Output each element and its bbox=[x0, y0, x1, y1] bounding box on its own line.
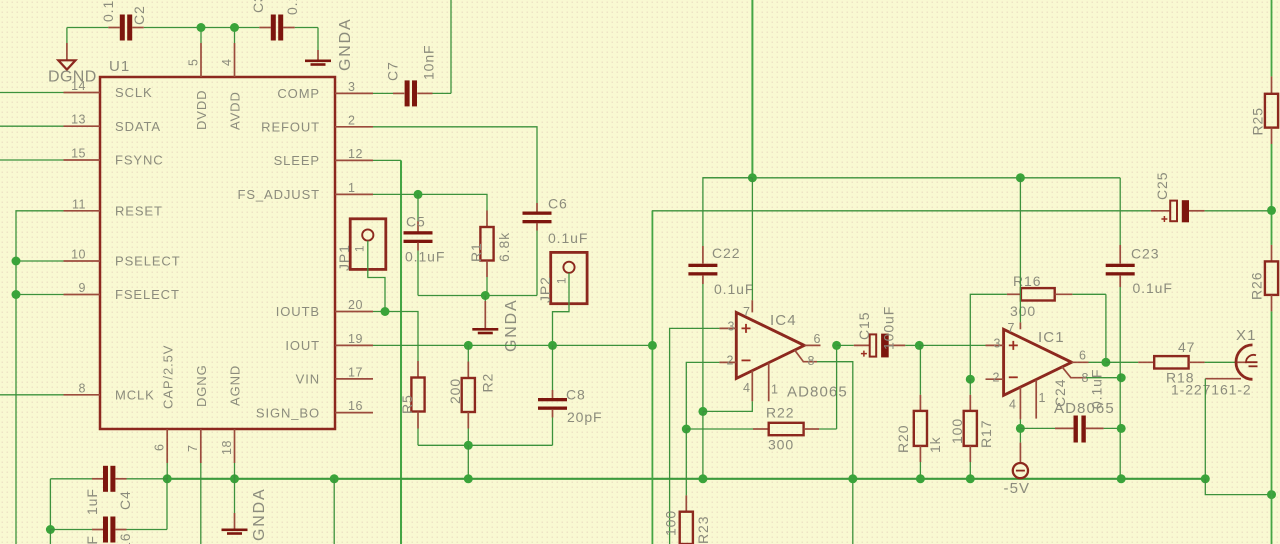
svg-text:1uF: 1uF bbox=[84, 535, 100, 544]
op-amp IC4 AD8065 bbox=[736, 312, 848, 401]
svg-text:GNDA: GNDA bbox=[337, 18, 354, 71]
svg-text:1: 1 bbox=[348, 181, 355, 195]
U1 right pin stubs bbox=[335, 93, 373, 412]
svg-text:300: 300 bbox=[1010, 303, 1036, 319]
svg-text:C24: C24 bbox=[1052, 379, 1068, 407]
resistor R17 100 bbox=[949, 379, 994, 479]
svg-text:8: 8 bbox=[808, 354, 815, 368]
svg-text:1-227161-2: 1-227161-2 bbox=[1171, 382, 1252, 398]
resistor R26 bbox=[1249, 245, 1279, 312]
svg-text:C7: C7 bbox=[385, 61, 401, 81]
svg-text:AGND: AGND bbox=[228, 365, 243, 406]
svg-text:C8: C8 bbox=[566, 387, 586, 403]
svg-text:DGNG: DGNG bbox=[194, 364, 209, 407]
ground GNDA mid symbol bbox=[472, 296, 520, 353]
node feedback R22 R23 junction bbox=[682, 425, 691, 434]
IC4 pin stubs bbox=[719, 300, 820, 401]
node bus C23 bbox=[1117, 474, 1126, 483]
svg-text:C2: C2 bbox=[131, 5, 147, 25]
svg-text:7: 7 bbox=[186, 445, 200, 452]
svg-text:X1: X1 bbox=[1236, 327, 1257, 344]
wire C22 node to ground bus bbox=[702, 411, 704, 478]
node IC4 output junction bbox=[832, 341, 841, 350]
U1 top pin names DVDD AVDD bbox=[194, 90, 243, 130]
connector X1 1-227161-2 bbox=[1171, 327, 1258, 398]
resistor R20 1k bbox=[895, 345, 943, 478]
wire JP2 pin to IOUT bus bbox=[553, 273, 570, 346]
capacitor C23 0.1uF bbox=[1106, 178, 1173, 479]
svg-text:100: 100 bbox=[949, 418, 965, 444]
capacitor C24 0.1uF bbox=[1020, 369, 1121, 443]
svg-text:200: 200 bbox=[447, 378, 463, 404]
U1 left pin stubs bbox=[64, 93, 101, 395]
wire IC4 +input to lower left bbox=[670, 328, 720, 544]
svg-text:DGND: DGND bbox=[48, 69, 97, 86]
node supply rail IC4 bbox=[748, 173, 757, 182]
IC4 pin numbers bbox=[727, 305, 821, 397]
wire lower analog rail bbox=[418, 444, 553, 446]
resistor R2 200 bbox=[447, 345, 496, 445]
svg-text:6: 6 bbox=[1079, 349, 1086, 363]
wire IC4 -input feedback node bbox=[686, 362, 719, 429]
svg-text:11: 11 bbox=[72, 197, 86, 211]
resistor R1 6.8k bbox=[468, 211, 512, 296]
node right rail bottom junction bbox=[1267, 490, 1276, 499]
svg-text:7: 7 bbox=[1008, 321, 1015, 335]
svg-text:R22: R22 bbox=[766, 405, 794, 421]
wire IC4 pin8 down bbox=[817, 362, 853, 544]
ground DGND symbol bbox=[48, 28, 97, 86]
wire AGND ground bus bbox=[167, 478, 1205, 480]
svg-text:R20: R20 bbox=[895, 425, 911, 453]
ground GNDA top symbol bbox=[305, 18, 354, 71]
svg-text:R1: R1 bbox=[468, 242, 484, 262]
svg-text:0.1uF: 0.1uF bbox=[1133, 280, 1173, 296]
svg-text:17: 17 bbox=[348, 365, 363, 379]
node bus C22 bbox=[698, 474, 707, 483]
node bus pin6 bbox=[163, 474, 172, 483]
wire SLEEP pin12 long vertical bbox=[373, 160, 401, 544]
wire IC4 supply pin7 bbox=[751, 178, 753, 300]
svg-text:13: 13 bbox=[71, 113, 86, 127]
node IC1 output junction bbox=[1101, 358, 1110, 367]
IC1 pin stubs bbox=[986, 322, 1089, 419]
wire RESET net to pin 11 bbox=[16, 211, 64, 544]
node pin5 junction bbox=[197, 23, 206, 32]
wire analog sub-rail bbox=[418, 295, 537, 297]
svg-text:4: 4 bbox=[220, 59, 234, 66]
svg-text:3: 3 bbox=[348, 80, 355, 94]
svg-text:SDATA: SDATA bbox=[115, 119, 161, 134]
U1 right pin numbers bbox=[348, 80, 363, 413]
wire IOUTB pin20 bbox=[373, 312, 418, 362]
svg-text:C23: C23 bbox=[1131, 246, 1159, 262]
wire R2 node to ground bus bbox=[467, 445, 469, 479]
wire R23 top bbox=[685, 429, 687, 495]
capacitor C5 0.1uF bbox=[404, 194, 446, 295]
svg-text:VIN: VIN bbox=[296, 372, 320, 387]
wire bus corner to right rail bbox=[1205, 479, 1271, 495]
svg-text:CAP/2.5V: CAP/2.5V bbox=[161, 345, 176, 409]
wire bottom cap up to pin6 node bbox=[166, 479, 168, 530]
resistor R16 300 bbox=[1007, 273, 1106, 319]
IC U1 body bbox=[100, 58, 335, 429]
svg-text:19: 19 bbox=[348, 332, 363, 346]
svg-text:15: 15 bbox=[71, 147, 86, 161]
svg-text:-5V: -5V bbox=[1004, 480, 1031, 497]
svg-text:AVDD: AVDD bbox=[228, 91, 243, 130]
svg-text:COMP: COMP bbox=[277, 86, 320, 101]
wire FSYNC net to pin 15 bbox=[0, 159, 64, 161]
node supply rail IC1 bbox=[1016, 173, 1025, 182]
wire PSELECT branch bbox=[16, 260, 64, 262]
U1 top pin numbers 5 4 bbox=[187, 59, 235, 66]
capacitor C8 20pF bbox=[538, 345, 603, 445]
wire pin18 to bus bbox=[234, 463, 236, 479]
node sub-rail GNDA junction bbox=[481, 291, 490, 300]
svg-text:3: 3 bbox=[728, 320, 735, 334]
svg-text:C25: C25 bbox=[1154, 172, 1170, 200]
wire C4 left down bbox=[49, 479, 51, 530]
U1 left pin numbers bbox=[71, 79, 86, 395]
wire center supply vertical top bbox=[751, 0, 753, 178]
node pin4 junction bbox=[230, 23, 239, 32]
svg-text:10: 10 bbox=[71, 248, 86, 262]
node lower rail R2 junction bbox=[464, 441, 473, 450]
svg-text:R17: R17 bbox=[978, 420, 994, 448]
wire REFOUT pin2 to C6 bbox=[373, 127, 537, 203]
wire below junction bbox=[49, 530, 51, 544]
op-amp IC1 AD8065 bbox=[1004, 329, 1115, 417]
svg-text:1: 1 bbox=[355, 245, 367, 252]
svg-text:47: 47 bbox=[1178, 339, 1195, 355]
svg-text:4: 4 bbox=[743, 381, 750, 395]
U1 bottom pin names CAP/2.5V DGNG AGND bbox=[161, 345, 243, 409]
resistor R5 bbox=[399, 361, 425, 445]
svg-text:6.8k: 6.8k bbox=[496, 232, 512, 262]
svg-text:2: 2 bbox=[993, 370, 1000, 384]
svg-text:3: 3 bbox=[994, 337, 1001, 351]
node C22 IC4 pin4 junction bbox=[698, 407, 707, 416]
resistor R23 100 bbox=[663, 495, 712, 544]
U1 left pin names bbox=[115, 85, 181, 402]
wire output RC line y211 bbox=[652, 210, 1151, 212]
svg-text:4: 4 bbox=[1009, 398, 1016, 412]
svg-text:U1: U1 bbox=[109, 58, 130, 75]
wire JP1 pin to IOUTB bbox=[368, 241, 385, 312]
svg-text:20pF: 20pF bbox=[567, 409, 603, 425]
node IOUT R2 junction bbox=[464, 341, 473, 350]
node pin4 C24 junction bbox=[1016, 424, 1025, 433]
svg-text:C4: C4 bbox=[117, 490, 133, 510]
ground GNDA bottom symbol bbox=[222, 479, 269, 541]
wire FS_ADJUST pin1 bbox=[373, 194, 487, 210]
svg-text:0.1uF: 0.1uF bbox=[405, 249, 445, 265]
node FSELECT junction bbox=[12, 290, 21, 299]
svg-text:FSYNC: FSYNC bbox=[115, 153, 164, 168]
wire IC1 pin4 node bbox=[1019, 419, 1021, 442]
svg-text:SCLK: SCLK bbox=[115, 85, 153, 100]
svg-text:REFOUT: REFOUT bbox=[261, 120, 320, 135]
svg-text:12: 12 bbox=[348, 147, 363, 161]
svg-text:7: 7 bbox=[743, 305, 750, 319]
wire junction to IC4 pin4 bbox=[703, 401, 752, 411]
wire pin7 DGNG down bbox=[200, 463, 202, 544]
svg-text:IOUT: IOUT bbox=[285, 338, 320, 353]
U1 right pin names bbox=[237, 86, 320, 420]
wire IC1 pin8 to C23 net bbox=[1086, 377, 1121, 379]
capacitor C4 1uF bbox=[50, 466, 167, 515]
wire C7 up to top edge bbox=[450, 0, 452, 93]
svg-text:1uF: 1uF bbox=[84, 488, 100, 515]
svg-text:DVDD: DVDD bbox=[194, 90, 209, 130]
svg-text:0.1uF: 0.1uF bbox=[1089, 369, 1105, 409]
svg-text:AD8065: AD8065 bbox=[787, 384, 848, 401]
svg-text:20: 20 bbox=[348, 298, 363, 312]
svg-text:FSELECT: FSELECT bbox=[115, 287, 180, 302]
capacitor C6 bbox=[523, 196, 589, 247]
svg-text:SIGN_BO: SIGN_BO bbox=[256, 405, 320, 420]
wire FSELECT branch bbox=[16, 294, 64, 296]
wire IOUT bus pin19 bbox=[373, 344, 652, 346]
node IC1 minus input junction bbox=[966, 375, 975, 384]
svg-text:5: 5 bbox=[187, 59, 201, 66]
svg-text:RESET: RESET bbox=[115, 204, 163, 219]
wire R16 right to output node bbox=[1105, 294, 1107, 362]
node C24 C23 junction bbox=[1117, 424, 1126, 433]
wire DVDD AVDD top rail bbox=[67, 28, 318, 44]
U1 bottom pin numbers 6 7 18 bbox=[153, 440, 235, 455]
svg-text:2: 2 bbox=[348, 113, 355, 127]
svg-text:C5: C5 bbox=[406, 214, 426, 230]
svg-text:FS_ADJUST: FS_ADJUST bbox=[237, 187, 320, 202]
wire C6 down to analog rail bbox=[536, 231, 538, 296]
resistor R22 300 bbox=[686, 405, 836, 453]
svg-text:C6: C6 bbox=[548, 196, 568, 212]
svg-text:GNDA: GNDA bbox=[251, 488, 268, 541]
wire X1 shield to bus bbox=[1204, 379, 1206, 479]
svg-text:C3: C3 bbox=[250, 0, 266, 13]
node bus R17 bbox=[966, 474, 975, 483]
svg-text:R25: R25 bbox=[1250, 107, 1266, 135]
wire positive supply rail bbox=[703, 177, 1120, 179]
svg-text:IOUTB: IOUTB bbox=[276, 304, 320, 319]
wire MCLK net to pin 8 bbox=[0, 394, 64, 396]
svg-text:IC1: IC1 bbox=[1038, 329, 1065, 346]
svg-text:100uF: 100uF bbox=[881, 306, 897, 350]
U1 bottom pin stubs pins 6 7 18 bbox=[167, 429, 234, 463]
resistor R25 bbox=[1250, 76, 1279, 144]
jumper JP1 bbox=[336, 219, 386, 271]
node IOUTB JP1 junction bbox=[381, 307, 390, 316]
wire IC1 output junction bbox=[1089, 361, 1106, 363]
capacitor C25 polarized bbox=[1151, 172, 1272, 223]
svg-text:8: 8 bbox=[79, 381, 86, 395]
wire SCLK net to pin 14 bbox=[0, 92, 64, 94]
jumper JP2 bbox=[537, 252, 587, 303]
svg-text:10nF: 10nF bbox=[421, 44, 437, 80]
svg-text:C15: C15 bbox=[856, 312, 872, 340]
capacitor C2 bbox=[100, 0, 147, 41]
svg-text:PSELECT: PSELECT bbox=[115, 254, 181, 269]
svg-text:0.1uF: 0.1uF bbox=[100, 0, 116, 22]
wire R16 left to minus input node bbox=[970, 294, 1007, 379]
wire IC1 supply pin7 bbox=[1019, 178, 1021, 323]
svg-text:1k: 1k bbox=[927, 436, 943, 453]
node C15 R20 junction bbox=[915, 341, 924, 350]
svg-text:0.1uF: 0.1uF bbox=[284, 0, 300, 15]
svg-text:1: 1 bbox=[771, 383, 778, 397]
svg-text:2: 2 bbox=[727, 354, 734, 368]
capacitor C15 100uF polarized bbox=[837, 306, 920, 358]
svg-text:16: 16 bbox=[348, 399, 363, 413]
svg-text:IC4: IC4 bbox=[770, 312, 797, 329]
node C25 right rail junction bbox=[1267, 206, 1276, 215]
node bus pin8 drop bbox=[848, 474, 857, 483]
svg-text:18: 18 bbox=[220, 440, 234, 455]
node IOUT bus junction x652 bbox=[648, 341, 657, 350]
svg-text:R23: R23 bbox=[695, 516, 711, 544]
resistor R18 47 bbox=[1106, 339, 1236, 386]
svg-text:GNDA: GNDA bbox=[503, 299, 520, 352]
svg-text:JP1: JP1 bbox=[336, 244, 352, 271]
node bus pin18 bbox=[230, 474, 239, 483]
svg-text:6: 6 bbox=[153, 444, 167, 451]
node bus X1 bbox=[1201, 474, 1210, 483]
capacitor C22 0.1uF bbox=[688, 178, 754, 412]
svg-text:0.1uF: 0.1uF bbox=[714, 281, 754, 297]
node bus R20 bbox=[916, 474, 925, 483]
wire IOUT node vertical x652 bbox=[651, 211, 653, 544]
wire right rail vertical bbox=[1271, 0, 1273, 544]
svg-text:R5: R5 bbox=[399, 394, 415, 414]
svg-text:SLEEP: SLEEP bbox=[274, 153, 320, 168]
svg-text:C22: C22 bbox=[712, 245, 740, 261]
svg-text:R26: R26 bbox=[1249, 272, 1265, 300]
svg-text:0.1uF: 0.1uF bbox=[548, 230, 588, 246]
wire pin6 to bus bbox=[166, 463, 168, 479]
capacitor C3 bbox=[250, 0, 300, 41]
node bus drop x334 bbox=[330, 474, 339, 483]
supply -5V symbol bbox=[1004, 443, 1031, 497]
node IOUT JP2 C8 junction bbox=[548, 341, 557, 350]
svg-text:JP2: JP2 bbox=[537, 276, 553, 303]
svg-text:R2: R2 bbox=[480, 373, 496, 393]
IC1 pin numbers bbox=[993, 321, 1089, 412]
node bus R2 bbox=[464, 474, 473, 483]
wire feedback from IC4 output bbox=[836, 345, 838, 429]
U1 top pin stubs pins 5 4 bbox=[201, 43, 235, 77]
node pin8 C23 junction bbox=[1117, 373, 1126, 382]
svg-text:6: 6 bbox=[814, 332, 821, 346]
wire to IC1 +input bbox=[919, 344, 985, 346]
capacitor C7 on COMP pin 3 bbox=[373, 44, 451, 106]
svg-text:1: 1 bbox=[557, 277, 569, 284]
svg-text:R16: R16 bbox=[1013, 273, 1041, 289]
node bottom cap junction bbox=[46, 525, 55, 534]
svg-text:9: 9 bbox=[79, 281, 86, 295]
svg-text:300: 300 bbox=[768, 437, 794, 453]
wire bus drop to bottom edge bbox=[333, 479, 335, 544]
svg-text:MCLK: MCLK bbox=[115, 388, 155, 403]
svg-text:1: 1 bbox=[1039, 391, 1046, 405]
svg-text:100: 100 bbox=[663, 510, 679, 536]
node PSELECT junction bbox=[12, 257, 21, 266]
capacitor C16 bottom bbox=[50, 517, 167, 544]
wire SDATA net to pin 13 bbox=[0, 125, 64, 127]
node FS_ADJUST junction C5 bbox=[414, 190, 423, 199]
svg-text:C16: C16 bbox=[117, 533, 133, 544]
